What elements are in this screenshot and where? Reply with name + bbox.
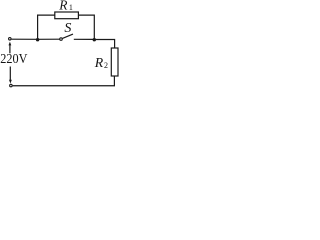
svg-text:2: 2 (104, 61, 108, 70)
220V arrow upper shaft (9, 44, 11, 53)
svg-text:220V: 220V (0, 51, 27, 66)
wire switch to node B (74, 38, 95, 40)
terminal T2 (bottom left) (10, 84, 13, 87)
svg-text:1: 1 (69, 3, 73, 12)
node A junction (36, 38, 39, 41)
220V arrow lower shaft (9, 67, 11, 81)
wire R1 to node B (78, 15, 94, 39)
svg-text:S: S (64, 21, 71, 36)
wire node A up to R1 branch (38, 15, 55, 39)
220V arrow lower head (9, 80, 12, 84)
220V arrow upper head (9, 42, 12, 46)
wire T1 to node A (12, 38, 38, 40)
node B junction (93, 38, 96, 41)
switch S blade (62, 34, 73, 38)
wire R2 to bottom rail (13, 76, 115, 86)
resistor R1 (55, 12, 79, 19)
svg-text:R: R (58, 0, 67, 13)
resistor R2 (111, 48, 118, 76)
wire node B to R2 (94, 40, 114, 49)
terminal T1 (top left) (9, 38, 12, 41)
switch S pivot contact (60, 38, 63, 41)
svg-text:R: R (94, 55, 104, 70)
wire node A to switch (38, 38, 60, 40)
